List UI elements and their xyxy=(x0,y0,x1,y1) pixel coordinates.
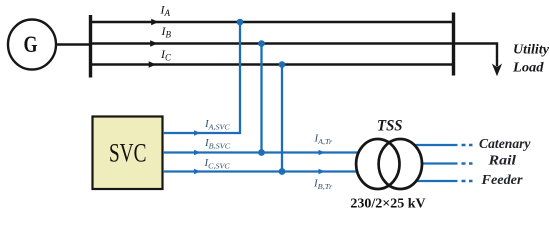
label Utility Load xyxy=(512,43,550,76)
svg-text:Load: Load xyxy=(512,61,545,76)
svg-text:IA,SVC: IA,SVC xyxy=(204,118,231,131)
svg-text:IC: IC xyxy=(160,47,172,63)
arrow I_C,SVC xyxy=(194,169,201,174)
arrow I_A,SVC xyxy=(194,130,201,135)
node junction phase A tap xyxy=(237,19,244,26)
wire rail output xyxy=(405,162,458,164)
svg-text:IC,SVC: IC,SVC xyxy=(204,157,231,170)
wire catenary output xyxy=(405,144,458,146)
wire rail dashes xyxy=(462,162,473,165)
wire catenary dashes xyxy=(462,144,473,147)
SVC box xyxy=(93,117,163,190)
wire I_A,SVC from SVC up to phase A xyxy=(163,22,240,133)
right busbar xyxy=(452,13,455,76)
svg-text:Utility: Utility xyxy=(513,43,550,58)
arrow I_B,Tr xyxy=(319,169,326,174)
arrow I_B,SVC xyxy=(194,150,201,155)
node junction phase B tap xyxy=(258,40,265,47)
svg-text:G: G xyxy=(24,32,38,57)
wire phase B tap vertical xyxy=(260,44,262,153)
svg-text:IA: IA xyxy=(160,3,171,19)
wire utility load branch xyxy=(454,44,497,67)
wire feeder dashes xyxy=(462,180,473,183)
wire phase C tap vertical xyxy=(281,65,283,172)
svg-text:IA,Tr: IA,Tr xyxy=(314,133,333,146)
left busbar xyxy=(89,15,92,78)
wire phase B xyxy=(91,42,455,44)
arrow I_A,Tr xyxy=(319,150,326,155)
wire I_B,SVC / I_A,Tr from SVC to transformer xyxy=(163,151,365,153)
arrow utility load xyxy=(492,64,502,77)
wire phase C xyxy=(91,63,455,65)
arrow phase C xyxy=(149,61,156,68)
svg-text:IB,SVC: IB,SVC xyxy=(204,137,231,150)
wire phase A xyxy=(91,21,455,23)
svg-text:Catenary: Catenary xyxy=(479,136,532,151)
node junction phase C tap xyxy=(279,61,286,68)
svg-text:TSS: TSS xyxy=(377,118,403,135)
wire I_C,SVC / I_B,Tr from SVC to transformer xyxy=(163,170,365,172)
svg-text:IB: IB xyxy=(161,24,172,40)
arrow phase A xyxy=(151,19,158,26)
node junction on I_A,Tr wire xyxy=(258,149,265,156)
wire generator to bus xyxy=(56,43,92,45)
node junction on I_B,Tr wire xyxy=(279,168,286,175)
transformer T1 TSS xyxy=(356,139,422,189)
svg-text:Rail: Rail xyxy=(487,153,516,168)
svg-text:Feeder: Feeder xyxy=(480,172,523,187)
arrow phase B xyxy=(150,40,157,47)
svg-text:SVC: SVC xyxy=(109,139,147,168)
generator G xyxy=(8,20,56,70)
svg-text:230/2×25 kV: 230/2×25 kV xyxy=(350,197,425,212)
svg-text:IB,Tr: IB,Tr xyxy=(313,178,332,191)
wire feeder output xyxy=(405,180,458,182)
